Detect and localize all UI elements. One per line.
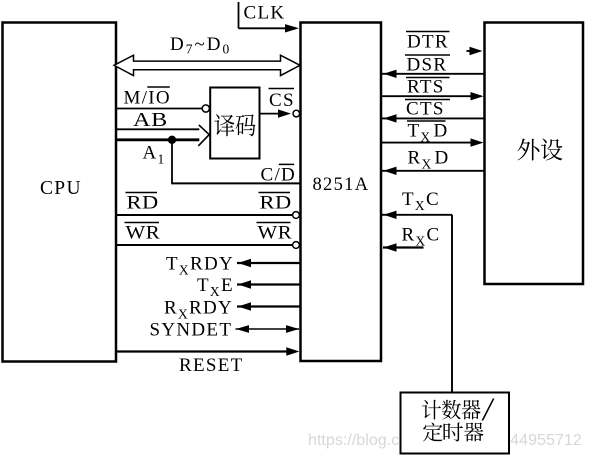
AB open arrowhead into decoder (198, 125, 209, 146)
C/D wire into 8251A (171, 182, 300, 184)
timer label shi (443, 422, 462, 441)
svg-text:RTS: RTS (407, 77, 445, 98)
svg-text:DTR: DTR (407, 32, 449, 53)
TxC wire from counter (381, 214, 452, 216)
8251A box (301, 23, 382, 362)
data bus D7~D0 double arrow (114, 55, 300, 75)
TxRDY wire (237, 262, 300, 264)
RxRDY wire (237, 305, 300, 307)
counter label slash (482, 398, 495, 420)
A1 vertical wire (171, 140, 173, 184)
svg-text:RESET: RESET (179, 355, 244, 376)
RxD wire (381, 170, 485, 172)
svg-text:8251A: 8251A (313, 175, 370, 195)
CPU box (3, 23, 117, 362)
CTS wire (381, 117, 485, 119)
svg-text:AB: AB (133, 108, 168, 130)
CLK wire into 8251A (239, 27, 297, 29)
RTS wire (381, 95, 481, 97)
WR bubble at 8251A (293, 242, 300, 249)
svg-text:RD: RD (260, 192, 292, 213)
counter label shu (442, 400, 461, 420)
DSR wire (381, 73, 485, 75)
counter label qi (462, 400, 481, 420)
RD wire (116, 214, 292, 216)
counter/timer box (401, 393, 510, 454)
RxC arrow stub into 8251A (383, 246, 424, 248)
M/IO wire (116, 108, 202, 110)
svg-text:WR: WR (258, 222, 293, 243)
svg-text:TXRDY: TXRDY (166, 254, 234, 278)
CLK stub vertical wire (238, 2, 240, 28)
decoder label yi (214, 114, 234, 136)
svg-text:M/IO: M/IO (124, 88, 171, 109)
svg-text:WR: WR (126, 222, 161, 243)
peripheral (outer-device) box (485, 23, 584, 285)
junction dot on A1 (168, 136, 176, 144)
RD bubble at 8251A (293, 212, 300, 219)
SYNDET wire (bidirectional) (236, 328, 300, 330)
RESET wire (116, 350, 296, 352)
svg-text:RD: RD (127, 192, 159, 213)
svg-text:CTS: CTS (406, 99, 445, 120)
decoder box (210, 88, 259, 159)
CS wire from decoder (260, 113, 287, 115)
svg-text:CS: CS (269, 90, 295, 111)
peripheral label she (541, 138, 563, 160)
decoder label ma (236, 114, 256, 136)
svg-text:DSR: DSR (407, 55, 448, 76)
TxE wire (237, 283, 300, 285)
timer label ding (423, 422, 443, 441)
svg-text:CLK: CLK (244, 3, 286, 24)
timer label qi2 (464, 423, 483, 442)
svg-text:CPU: CPU (40, 178, 82, 199)
counter label ji (422, 400, 441, 420)
peripheral label wai (518, 138, 540, 160)
CS inverter bubble at 8251A (293, 110, 300, 117)
svg-text:C/D: C/D (261, 165, 297, 186)
TxD wire (381, 142, 481, 144)
DTR arrow stub into peripheral (467, 50, 477, 52)
svg-text:D7~D0: D7~D0 (170, 34, 231, 57)
AB bus bottom wire (A1 trace) (116, 138, 199, 141)
svg-text:SYNDET: SYNDET (150, 320, 233, 341)
AB bus top wire (116, 128, 199, 130)
counter vertical wire (451, 215, 453, 393)
svg-text:RXRDY: RXRDY (164, 298, 233, 322)
WR wire (116, 244, 292, 246)
inverter bubble at decoder M/IO input (202, 105, 209, 112)
